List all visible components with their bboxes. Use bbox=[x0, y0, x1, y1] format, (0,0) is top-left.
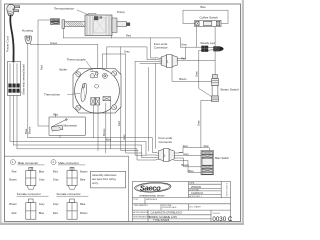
svg-text:Red: Red bbox=[53, 112, 58, 116]
svg-text:Blue: Blue bbox=[39, 170, 45, 174]
wire: green down to boiler bbox=[97, 45, 99, 73]
svg-text:Brown: Brown bbox=[80, 211, 88, 215]
svg-text:Brown: Brown bbox=[179, 77, 187, 81]
connector1 left fan wires bbox=[135, 58, 161, 64]
svg-text:Saeco: Saeco bbox=[140, 183, 161, 192]
connector2 right wires to main switch bbox=[174, 152, 183, 155]
terminal board bbox=[8, 62, 21, 96]
svg-text:Housing: Housing bbox=[22, 29, 33, 33]
svg-text:Red: Red bbox=[53, 211, 58, 215]
svg-text:Steam Switch: Steam Switch bbox=[220, 87, 239, 91]
svg-text:Thermofuse: Thermofuse bbox=[44, 93, 60, 97]
svg-text:Female connector: Female connector bbox=[57, 192, 81, 196]
svg-text:Red: Red bbox=[40, 65, 44, 70]
legend: male connector 2 title bbox=[51, 160, 56, 165]
thermofuse bbox=[44, 93, 60, 97]
wire color label (rotated) brown bbox=[102, 128, 106, 136]
boiler body bbox=[73, 68, 121, 113]
thermocouple bbox=[67, 57, 87, 61]
microswitch bbox=[49, 117, 85, 135]
svg-text:Blue: Blue bbox=[106, 138, 112, 142]
wire: pump bottom loop / long red run bbox=[63, 28, 111, 38]
svg-text:CHIANI M.: CHIANI M. bbox=[191, 191, 204, 195]
svg-text:Blue: Blue bbox=[201, 5, 207, 9]
svg-text:Red: Red bbox=[12, 211, 17, 215]
termoprotector crimp pair bbox=[51, 19, 60, 25]
svg-text:Grey: Grey bbox=[181, 42, 187, 46]
wire color labels (rotated) blue / brown bbox=[24, 128, 28, 134]
power plug bbox=[7, 4, 20, 15]
svg-text:Grey: Grey bbox=[39, 202, 45, 206]
svg-text:Red: Red bbox=[12, 170, 17, 174]
svg-text:0030 C: 0030 C bbox=[212, 216, 232, 223]
svg-text:Blue: Blue bbox=[24, 128, 28, 134]
svg-text:Red: Red bbox=[53, 170, 58, 174]
bottom-left horizontal wire runs bbox=[28, 138, 156, 153]
svg-text:CODICE: CODICE bbox=[212, 213, 220, 215]
svg-text:Female connector: Female connector bbox=[17, 192, 41, 196]
svg-text:Ready Led: Ready Led bbox=[201, 41, 216, 45]
wire brown: connector1 to steam switch bbox=[172, 68, 212, 82]
svg-text:Connector: Connector bbox=[154, 45, 168, 49]
svg-text:DIS. STAMPI: DIS. STAMPI bbox=[189, 206, 201, 209]
pump bbox=[62, 13, 130, 35]
wire: grey short run bbox=[102, 54, 125, 74]
steam switch bbox=[212, 75, 219, 102]
svg-text:SUPERFICIALE: SUPERFICIALE bbox=[162, 206, 177, 209]
svg-text:Pump: Pump bbox=[117, 10, 125, 14]
svg-text:DATA: DATA bbox=[189, 182, 195, 185]
svg-text:POS.: POS. bbox=[134, 199, 139, 201]
wire red: connector1 to steam switch top bbox=[177, 59, 215, 61]
svg-text:Blue: Blue bbox=[80, 202, 86, 206]
svg-text:INTERNATIONAL GROUP: INTERNATIONAL GROUP bbox=[140, 194, 166, 197]
svg-text:Grey: Grey bbox=[39, 178, 45, 182]
boiler label bbox=[60, 67, 68, 71]
left wires down from terminal board bbox=[10, 96, 17, 149]
svg-text:Blue: Blue bbox=[39, 211, 45, 215]
legend: female connector 1 bbox=[17, 192, 41, 196]
coffee switch bbox=[195, 20, 221, 26]
svg-text:Grey: Grey bbox=[195, 71, 199, 77]
blue loop / coffee switch wiring bbox=[183, 10, 228, 23]
boiler corner screws bbox=[76, 71, 117, 110]
drawing frame bbox=[5, 4, 241, 222]
wire: steam switch bottom to main switch bbox=[201, 100, 212, 147]
wire: connector1 down wire bbox=[148, 68, 150, 152]
svg-text:Red: Red bbox=[204, 144, 209, 148]
screw-ends terminal board label (rotated) bbox=[22, 64, 26, 95]
svg-text:CA BARISTA STARBUCKS: CA BARISTA STARBUCKS bbox=[151, 211, 183, 215]
svg-text:25/09/00: 25/09/00 bbox=[191, 185, 202, 189]
svg-text:Boiler: Boiler bbox=[60, 67, 68, 71]
svg-text:Microswitch: Microswitch bbox=[64, 124, 78, 128]
housing wires bbox=[27, 44, 29, 138]
assembly note box bbox=[91, 171, 126, 188]
svg-text:APPROVAZIONE: APPROVAZIONE bbox=[133, 211, 149, 214]
svg-text:Brown: Brown bbox=[80, 170, 88, 174]
svg-text:TRATTAMENTO: TRATTAMENTO bbox=[134, 204, 149, 207]
wire grey: connector1 to ready led bbox=[177, 47, 202, 58]
svg-text:are seen from wiring: are seen from wiring bbox=[92, 177, 116, 181]
svg-text:Green: Green bbox=[50, 41, 58, 45]
wire: grey run to connector 1 bbox=[107, 47, 156, 60]
svg-text:Grey: Grey bbox=[197, 120, 201, 126]
svg-text:entry.: entry. bbox=[92, 181, 99, 185]
wire: led lower to steam switch (diagonal) bbox=[199, 50, 212, 97]
svg-text:Coffee Switch: Coffee Switch bbox=[200, 15, 219, 19]
svg-text:Red: Red bbox=[183, 144, 188, 148]
wire: connector1 pin4 vertical down to connector 2 bbox=[154, 64, 156, 149]
svg-text:Grey: Grey bbox=[53, 202, 59, 206]
svg-text:Brown: Brown bbox=[9, 178, 17, 182]
svg-text:Termoprotector: Termoprotector bbox=[54, 6, 74, 10]
termoprotector label bbox=[54, 6, 74, 10]
svg-text:Brown: Brown bbox=[27, 126, 31, 134]
legend: female connector 2 bbox=[57, 192, 81, 196]
svg-text:Male connector: Male connector bbox=[18, 161, 39, 165]
boiler bottom wires going down bbox=[94, 101, 111, 153]
svg-text:Grey: Grey bbox=[122, 134, 126, 140]
wire: coffee switch to steam switch top bbox=[214, 27, 216, 75]
svg-text:TYPE SIN026: TYPE SIN026 bbox=[153, 218, 170, 222]
title block bbox=[133, 182, 231, 222]
svg-text:SOSTITUISCE IL: SOSTITUISCE IL bbox=[227, 183, 229, 197]
power cord label (rotated) bbox=[6, 36, 10, 52]
svg-text:Connector: Connector bbox=[159, 140, 173, 144]
svg-text:Grey: Grey bbox=[53, 178, 59, 182]
housing bbox=[22, 29, 33, 33]
page edge shadows bbox=[0, 0, 2, 225]
svg-text:Assembly references: Assembly references bbox=[92, 173, 117, 177]
legend: male connector 2 glyph bbox=[67, 167, 77, 189]
connector 2 (four ends) bbox=[159, 149, 175, 162]
svg-text:Main Switch: Main Switch bbox=[215, 156, 230, 160]
main switch bbox=[201, 151, 214, 175]
legend box bbox=[5, 156, 129, 221]
connector 1 (four ends) bbox=[160, 55, 177, 68]
wire: coffee switch left terminal down to ready led bbox=[196, 27, 198, 48]
legend: male connector 1 glyph bbox=[26, 167, 36, 189]
power cord cable bbox=[10, 16, 13, 62]
wire red into main switch bbox=[183, 148, 209, 151]
svg-text:DISEGNAT.: DISEGNAT. bbox=[189, 189, 200, 192]
svg-text:Red: Red bbox=[181, 56, 186, 60]
svg-text:Red: Red bbox=[117, 121, 121, 126]
svg-text:APPROVAT. 1: APPROVAT. 1 bbox=[189, 195, 202, 198]
svg-text:Brown: Brown bbox=[102, 128, 106, 136]
svg-text:Screw ends terminal board: Screw ends terminal board bbox=[22, 64, 26, 95]
rotated text right column bbox=[227, 183, 229, 197]
svg-text:Grey: Grey bbox=[124, 50, 130, 54]
svg-text:Thermocouple: Thermocouple bbox=[67, 57, 87, 61]
saeco logo bbox=[134, 182, 171, 193]
svg-text:Male connector: Male connector bbox=[58, 161, 79, 165]
ready led bbox=[201, 41, 216, 45]
title block texts bbox=[133, 182, 233, 224]
wire: termoprotector to microswitch (red) bbox=[38, 20, 51, 126]
svg-text:MATERIALE: MATERIALE bbox=[146, 198, 158, 201]
svg-text:Power Cord: Power Cord bbox=[6, 36, 10, 52]
legend: male connector 1 title bbox=[10, 160, 15, 165]
svg-text:Brown: Brown bbox=[9, 202, 17, 206]
svg-text:Blue: Blue bbox=[189, 169, 195, 173]
svg-text:Blue: Blue bbox=[80, 178, 86, 182]
wire: mid verticals down to connector 2 area bbox=[121, 47, 146, 155]
svg-text:Grey: Grey bbox=[183, 152, 189, 156]
boiler bottom spade terminals bbox=[91, 97, 111, 106]
svg-text:Red: Red bbox=[126, 34, 131, 38]
